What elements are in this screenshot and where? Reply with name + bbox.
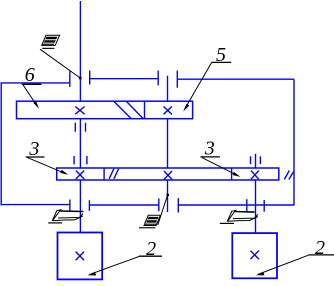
frame right border: [293, 79, 295, 205]
icon leader to shaft II coupling: [158, 196, 168, 226]
label 2 left leader: [90, 257, 140, 275]
coupling tick bottom shaft II right: [177, 198, 179, 212]
arrowhead label 5: [183, 104, 189, 112]
coupling tick bottom shaft II left: [158, 199, 160, 212]
bearing cross shaft II upper: [164, 107, 172, 115]
coupling tick top shaft II left: [157, 71, 159, 86]
lower block divider left: [103, 168, 105, 180]
label 5 leader: [185, 63, 211, 109]
shaft I middle segment: [79, 119, 81, 168]
frame top-right line: [177, 78, 294, 80]
bearing cross shaft I lower: [76, 171, 84, 180]
bearing cross shaft III lower: [251, 171, 259, 180]
support ticks above lower block shaft III: [251, 156, 261, 164]
lower block slash marks inside: [109, 169, 119, 179]
bearing cross in left box: [76, 252, 85, 261]
shaft III lower segment: [255, 180, 257, 233]
gear block hatch diagonal 1: [114, 102, 131, 119]
label 6 underline: [22, 83, 42, 85]
arrowhead label 6: [33, 101, 39, 109]
pen icon right (at shaft III bottom coupling): [227, 210, 258, 221]
shaft I lower segment: [79, 180, 81, 233]
arrowhead label 2 right: [256, 272, 265, 275]
label 2 left underline: [139, 255, 162, 257]
frame top-left line: [1, 82, 70, 84]
svg-text:5: 5: [216, 44, 226, 66]
bearing tick top shaft I right: [89, 71, 91, 85]
coupling tick bottom shaft I left: [69, 200, 71, 212]
label 3 right leader: [202, 158, 238, 176]
junction dot shaft I top coupling: [79, 77, 82, 80]
shaft III upper segment: [255, 154, 257, 168]
shaft II upper segment: [167, 76, 169, 102]
shaft II middle segment: [167, 119, 169, 168]
arrowhead label 3 left: [60, 170, 68, 175]
bearing cross shaft II lower: [164, 171, 172, 179]
gear block hatch diagonal 2: [127, 102, 144, 119]
label 3 left underline: [26, 156, 45, 158]
wire top span shaft I to shaft II: [90, 78, 159, 80]
shaft II lower segment: [167, 180, 169, 212]
coupling tick bottom shaft III left: [246, 199, 248, 211]
wire bottom span shaft I to shaft II: [89, 204, 158, 206]
bearing cross in right box: [250, 251, 259, 260]
gear block 3 housing (lower rectangle): [57, 168, 279, 180]
label 6 leader: [23, 85, 37, 107]
icon leader to shaft I coupling: [40, 49, 80, 77]
motor icon stack glyph top-left: [42, 35, 60, 45]
frame bottom line left: [1, 204, 70, 206]
label 3 right underline: [200, 156, 220, 158]
motor icon stack glyph middle (above shaft II bottom coupling): [144, 215, 160, 225]
frame bottom line right: [178, 204, 294, 206]
gear block divider: [144, 101, 146, 119]
label 2 right leader: [258, 255, 308, 274]
gear block 6 housing (upper rectangle): [17, 101, 193, 119]
svg-text:6: 6: [25, 64, 35, 86]
coupling tick top shaft II right: [176, 71, 178, 88]
arrowhead label 2 left: [87, 272, 96, 275]
label 5 underline: [211, 61, 231, 63]
junction dot shaft II bottom coupling: [167, 194, 170, 196]
shaft I upper segment: [79, 1, 81, 101]
bearing cross shaft I upper: [75, 107, 84, 115]
arrowhead label 3 right: [233, 172, 241, 177]
label 2 right underline: [308, 254, 334, 256]
svg-text:3: 3: [28, 138, 39, 160]
frame left border: [0, 83, 2, 205]
coupling tick bottom shaft I right: [88, 200, 90, 211]
svg-text:2: 2: [146, 238, 156, 260]
pen icon left (at shaft I bottom coupling): [52, 210, 83, 221]
label 3 left leader: [28, 158, 67, 174]
bearing tick top shaft I left: [69, 71, 71, 87]
support ticks below upper block shaft I: [75, 123, 85, 132]
slash marks outside lower block: [284, 171, 294, 180]
lower block divider right: [231, 168, 233, 180]
svg-text:2: 2: [315, 237, 325, 259]
machine unit 2 left box: [58, 233, 103, 280]
coupling tick bottom shaft III right: [263, 200, 265, 212]
machine unit 2 right box: [232, 233, 277, 278]
svg-text:3: 3: [204, 138, 215, 160]
support ticks above lower block shaft I: [74, 156, 87, 164]
